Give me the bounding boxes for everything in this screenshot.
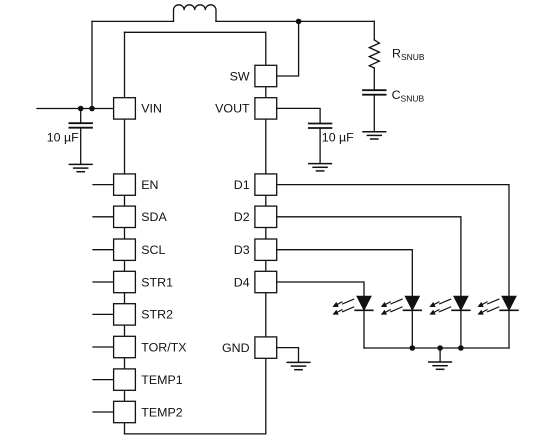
svg-text:TOR/TX: TOR/TX xyxy=(141,340,186,354)
svg-text:EN: EN xyxy=(141,178,158,192)
svg-text:D3: D3 xyxy=(234,243,250,257)
svg-text:GND: GND xyxy=(222,341,250,355)
svg-text:SW: SW xyxy=(230,69,250,83)
svg-text:10 µF: 10 µF xyxy=(47,131,79,145)
svg-text:TEMP1: TEMP1 xyxy=(141,373,182,387)
svg-text:10 µF: 10 µF xyxy=(322,131,354,145)
svg-text:D2: D2 xyxy=(234,210,250,224)
svg-text:SDA: SDA xyxy=(141,210,167,224)
svg-text:VIN: VIN xyxy=(141,102,162,116)
svg-text:D1: D1 xyxy=(234,178,250,192)
svg-text:VOUT: VOUT xyxy=(215,102,250,116)
svg-text:SCL: SCL xyxy=(141,243,165,257)
svg-text:D4: D4 xyxy=(234,275,250,289)
svg-text:TEMP2: TEMP2 xyxy=(141,405,182,419)
svg-text:STR2: STR2 xyxy=(141,308,173,322)
svg-text:STR1: STR1 xyxy=(141,275,173,289)
